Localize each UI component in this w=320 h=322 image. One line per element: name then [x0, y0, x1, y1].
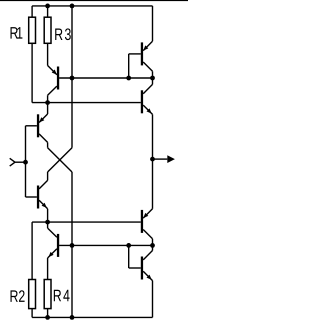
node top rail / colC	[70, 4, 75, 9]
wire column C bottom	[71, 172, 73, 317]
node y245 / colC	[70, 243, 75, 248]
wire R1 bottom lead	[31, 43, 33, 102]
label R4	[54, 290, 70, 302]
wire Q2 base lead	[26, 196, 37, 198]
label R2	[11, 290, 25, 302]
wire Q2 collector to X	[47, 172, 49, 180]
node y78 / colD	[126, 76, 131, 81]
wire Q7 collector to y245	[152, 245, 154, 250]
output terminal arrow	[153, 158, 168, 160]
transistor Q5 (top right PNP)	[141, 42, 143, 65]
node output dot	[150, 157, 155, 162]
wire Q6 emitter to R4	[47, 258, 49, 280]
wire Q8 collector to y245	[152, 239, 154, 246]
node top rail / R3	[45, 4, 50, 9]
resistor R2	[29, 280, 36, 309]
wire Q5 collector to y78	[152, 71, 154, 78]
node y245 / colD	[126, 243, 131, 248]
wire rail2 (upper mirror input rail)	[32, 102, 141, 104]
wire lower base rail y245	[59, 244, 152, 246]
node input dot	[23, 160, 28, 165]
label R3	[55, 28, 71, 40]
node y78 / colE	[150, 76, 155, 81]
node y245 / colE	[150, 243, 155, 248]
wire Q4 emitter to output node	[152, 114, 154, 159]
transistor Q2 (middle lower NPN)	[37, 186, 39, 209]
wire bottom supply rail	[32, 316, 152, 318]
wire Q1 collector to X	[47, 142, 49, 147]
node rail3 junction	[45, 220, 50, 225]
wire input base column	[25, 126, 27, 197]
node y78 / colC	[70, 76, 75, 81]
wire top supply rail	[32, 5, 152, 7]
transistor Q7 (bottom right NPN)	[141, 257, 143, 280]
transistor Q3 (upper left PNP)	[57, 67, 59, 90]
wire R1 top lead	[31, 6, 33, 17]
wire Q7 base rise	[128, 245, 130, 268]
transistor Q6 (lower left NPN)	[57, 234, 59, 257]
wire R3 lead to Q3 emitter	[47, 43, 49, 65]
figure top border	[0, 0, 188, 1]
wire Q5 emitter to top rail	[152, 6, 154, 41]
label R1	[11, 27, 23, 39]
wire Q5 base lead	[129, 53, 141, 55]
input terminal Y	[15, 161, 26, 163]
wire Q1 base lead	[26, 125, 37, 127]
wire R3 top lead	[47, 6, 49, 17]
wire Q4 collector to y78	[152, 78, 154, 84]
wire R2 bottom lead	[31, 309, 33, 318]
wire Q7 base lead	[129, 267, 141, 269]
node rail2 junction	[45, 100, 50, 105]
wire column C top	[71, 6, 73, 148]
node bottom rail / R4	[45, 315, 50, 320]
transistor Q4 (right NPN)	[141, 90, 143, 113]
wire Q6 collector to rail3	[47, 222, 49, 228]
wire cross X diag 1	[48, 148, 72, 172]
wire R2 top lead	[31, 222, 33, 279]
wire R4 bottom lead	[47, 309, 49, 318]
resistor R4	[44, 280, 51, 309]
wire cross X diag 2	[48, 148, 72, 172]
wire upper base rail y78	[59, 77, 152, 79]
wire rail3 (lower mirror input rail)	[32, 221, 141, 223]
resistor R3	[44, 17, 51, 43]
node bottom rail / colC	[70, 315, 75, 320]
wire Q8 emitter to output node	[152, 159, 154, 209]
wire Q1 emitter to rail2 dot	[47, 103, 49, 114]
wire Q3 collector to rail2	[47, 95, 49, 102]
transistor Q1 (middle upper PNP)	[37, 114, 39, 137]
wire Q7 emitter to bottom rail	[152, 281, 154, 318]
resistor R1	[29, 17, 36, 43]
wire Q5 base drop	[128, 54, 130, 78]
transistor Q8 (right PNP lower)	[141, 210, 143, 233]
wire Q2 emitter to rail3 dot	[47, 209, 49, 222]
